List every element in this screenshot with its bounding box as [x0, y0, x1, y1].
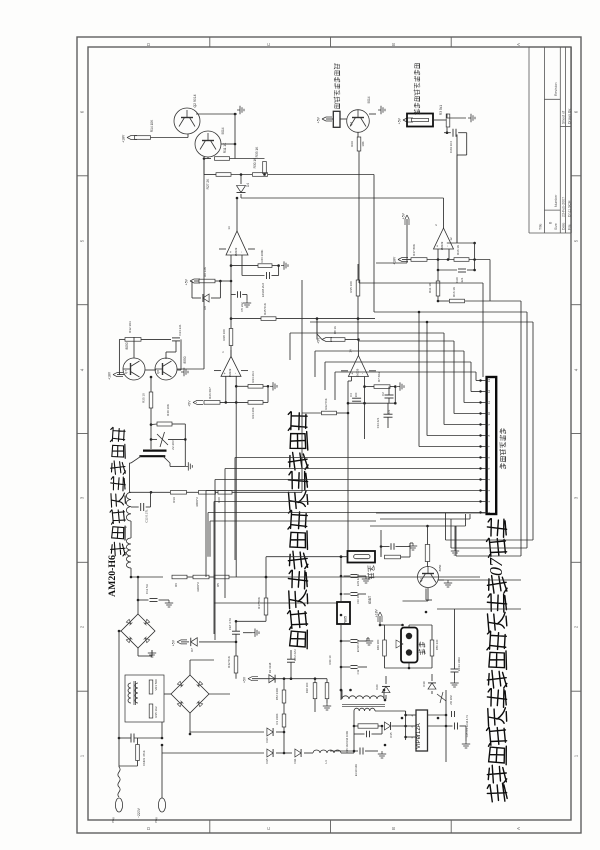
- svg-text:Size: Size: [554, 223, 558, 230]
- svg-text:ECN8 47U: ECN8 47U: [356, 640, 360, 653]
- svg-text:R25 10: R25 10: [142, 393, 146, 403]
- svg-text:9014: 9014: [221, 127, 225, 134]
- svg-text:R35 1K2: R35 1K2: [154, 706, 158, 718]
- svg-text:Plug: Plug: [154, 817, 158, 823]
- svg-text:12: 12: [487, 390, 491, 394]
- svg-text:R15 100: R15 100: [349, 281, 353, 293]
- svg-text:R9 12K: R9 12K: [203, 267, 207, 277]
- svg-text:R33 1K: R33 1K: [255, 146, 259, 158]
- svg-text:Sheet of: Sheet of: [562, 111, 566, 124]
- svg-text:23-Feb-2007: 23-Feb-2007: [562, 197, 566, 217]
- svg-text:C10 104: C10 104: [356, 594, 360, 604]
- svg-text:R50 330: R50 330: [435, 639, 439, 650]
- svg-text:D15: D15: [389, 732, 393, 738]
- svg-text:Revision: Revision: [554, 83, 558, 96]
- svg-text:R49 180: R49 180: [376, 639, 380, 650]
- svg-text:13: 13: [487, 379, 491, 383]
- svg-text:Q1: Q1: [419, 578, 423, 582]
- svg-text:13: 13: [227, 226, 231, 230]
- svg-text:EC13 100U: EC13 100U: [457, 657, 461, 671]
- svg-text:C24 221: C24 221: [178, 324, 182, 336]
- svg-text:12: 12: [449, 237, 453, 241]
- svg-text:R19: R19: [172, 497, 176, 503]
- svg-text:LM339: LM339: [234, 247, 238, 256]
- svg-text:+: +: [350, 372, 354, 374]
- svg-text:R22 56K: R22 56K: [324, 398, 328, 409]
- svg-text:+: +: [223, 372, 227, 374]
- svg-text:Number: Number: [554, 194, 558, 207]
- svg-text:+18V: +18V: [375, 608, 379, 617]
- svg-text:+5V: +5V: [185, 278, 189, 285]
- svg-text:D4: D4: [246, 183, 250, 187]
- svg-text:8050: 8050: [438, 564, 442, 571]
- svg-text:300K*2: 300K*2: [195, 497, 199, 507]
- svg-text:330K*2: 330K*2: [196, 582, 200, 592]
- svg-text:Title: Title: [539, 223, 543, 230]
- svg-text:+5V: +5V: [172, 639, 176, 646]
- svg-text:Plug: Plug: [111, 817, 115, 823]
- svg-text:D7: D7: [190, 648, 194, 652]
- svg-text:D19: D19: [422, 681, 426, 687]
- svg-text:+5V: +5V: [398, 117, 402, 124]
- svg-text:R47 80K: R47 80K: [412, 244, 416, 256]
- svg-text:Z2 20V: Z2 20V: [171, 440, 175, 450]
- svg-text:C5 222: C5 222: [240, 302, 244, 312]
- svg-text:VR1 500: VR1 500: [154, 679, 158, 691]
- svg-text:C12: C12: [356, 669, 360, 674]
- svg-text:C25 473 EC14 4.7U: C25 473 EC14 4.7U: [466, 715, 469, 738]
- svg-text:+: +: [436, 245, 440, 247]
- svg-text:~220V: ~220V: [137, 807, 141, 818]
- svg-text:CE7 4.7U: CE7 4.7U: [228, 618, 232, 630]
- svg-text:+5V: +5V: [188, 400, 192, 407]
- svg-text:11: 11: [487, 401, 491, 404]
- svg-text:Drawn By:: Drawn By:: [567, 108, 571, 124]
- svg-text:Q4: Q4: [349, 122, 353, 126]
- svg-text:10K: 10K: [361, 141, 365, 146]
- svg-text:C12 0.27L: C12 0.27L: [145, 509, 149, 523]
- svg-text:D15: D15: [265, 758, 269, 764]
- svg-text:D16: D16: [265, 737, 269, 743]
- svg-text:R46 200K: R46 200K: [260, 250, 264, 263]
- svg-text:C13 221: C13 221: [376, 417, 380, 428]
- svg-text:EC2 22U: EC2 22U: [293, 649, 297, 660]
- svg-text:R23 2K4: R23 2K4: [251, 371, 255, 383]
- svg-text:8550: 8550: [183, 356, 187, 363]
- svg-text:+18V: +18V: [122, 134, 126, 143]
- svg-text:R32 3K3: R32 3K3: [128, 321, 132, 333]
- svg-text:R24 20K: R24 20K: [251, 407, 255, 418]
- svg-text:CNR1 471K: CNR1 471K: [142, 750, 146, 765]
- svg-text:+5V: +5V: [243, 676, 247, 683]
- svg-text:R7 6K2: R7 6K2: [377, 372, 381, 382]
- svg-text:R29: R29: [350, 141, 354, 147]
- svg-text:R18 100: R18 100: [305, 682, 309, 693]
- svg-text:ZD 18V: ZD 18V: [449, 695, 453, 705]
- svg-text:R20: R20: [217, 497, 221, 503]
- svg-text:R6: R6: [174, 583, 178, 587]
- svg-text:Q7: Q7: [124, 370, 128, 374]
- svg-text:C29 104: C29 104: [449, 141, 453, 153]
- svg-text:R31 1K: R31 1K: [428, 283, 432, 293]
- svg-text:L4: L4: [324, 760, 328, 764]
- svg-text:D20: D20: [375, 684, 379, 690]
- svg-text:R27 2K: R27 2K: [206, 178, 210, 190]
- svg-text:R17 50K: R17 50K: [257, 597, 261, 609]
- svg-text:R11 1K: R11 1K: [223, 142, 227, 153]
- svg-text:+5V: +5V: [317, 116, 321, 123]
- svg-text:R26 6K7: R26 6K7: [208, 387, 212, 399]
- svg-text:7805: 7805: [344, 616, 348, 624]
- svg-text:C11 5U: C11 5U: [145, 584, 149, 594]
- svg-text:D:\11.SCH: D:\11.SCH: [567, 200, 571, 217]
- svg-text:Date: Date: [562, 223, 566, 230]
- svg-text:R52 330K: R52 330K: [275, 688, 279, 701]
- svg-text:221: 221: [460, 277, 464, 282]
- svg-text:File: File: [567, 224, 571, 230]
- svg-text:+5V: +5V: [402, 212, 406, 219]
- svg-text:IGBT: IGBT: [368, 595, 372, 604]
- svg-text:LM339: LM339: [228, 368, 232, 377]
- svg-text:A: A: [516, 827, 521, 830]
- svg-text:LM339: LM339: [355, 368, 359, 377]
- svg-text:R5: R5: [216, 583, 220, 587]
- svg-text:B: B: [391, 827, 396, 830]
- svg-text:R36 10: R36 10: [328, 655, 332, 664]
- svg-text:R36 1K: R36 1K: [456, 245, 460, 255]
- svg-text:9014: 9014: [367, 96, 371, 103]
- svg-text:D8: D8: [203, 306, 207, 310]
- svg-text:R14 10K: R14 10K: [150, 119, 154, 132]
- svg-text:B: B: [391, 43, 396, 46]
- svg-text:R42 51K: R42 51K: [227, 656, 231, 668]
- svg-text:EC10 10U: EC10 10U: [354, 764, 358, 776]
- svg-text:Q2 9014: Q2 9014: [193, 94, 197, 107]
- svg-text:A: A: [516, 43, 521, 46]
- svg-text:+: +: [229, 251, 233, 253]
- svg-text:D11: D11: [293, 758, 297, 763]
- svg-text:+18V: +18V: [108, 371, 112, 380]
- svg-text:100: 100: [354, 392, 358, 397]
- svg-text:C15 102 R34 100K: C15 102 R34 100K: [345, 731, 349, 753]
- svg-text:Q8: Q8: [156, 370, 160, 374]
- svg-text:LM339: LM339: [440, 241, 444, 250]
- svg-text:R16 1K: R16 1K: [452, 287, 456, 297]
- svg-text:R28 100: R28 100: [222, 329, 226, 341]
- svg-text:AM20-H6: AM20-H6: [107, 555, 118, 597]
- svg-text:8050: 8050: [125, 342, 129, 349]
- svg-text:07: 07: [486, 557, 506, 576]
- svg-text:C2: C2: [381, 392, 385, 396]
- svg-text:R40 10K: R40 10K: [166, 404, 170, 416]
- svg-text:VIPer12A: VIPer12A: [416, 723, 422, 749]
- svg-text:10: 10: [487, 412, 491, 416]
- svg-text:R3 5k1: R3 5k1: [439, 105, 443, 115]
- svg-text:R1 330K: R1 330K: [275, 713, 279, 724]
- svg-text:ECWA 2U2: ECWA 2U2: [261, 283, 265, 297]
- svg-text:D2 4148: D2 4148: [268, 662, 272, 673]
- svg-text:R25 51K: R25 51K: [263, 303, 267, 315]
- svg-text:C3: C3: [349, 393, 353, 397]
- svg-text:C20: C20: [455, 277, 459, 283]
- svg-text:R30 1K: R30 1K: [253, 157, 257, 169]
